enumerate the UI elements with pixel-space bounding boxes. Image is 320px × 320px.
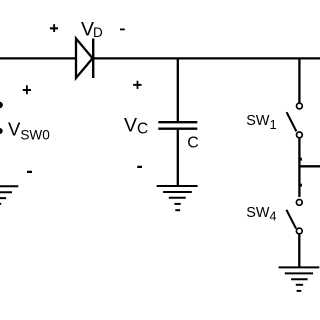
svg-text:C: C xyxy=(187,135,199,152)
label + (diode anode) xyxy=(50,24,58,32)
label + (capacitor) xyxy=(133,81,142,89)
switch SW1 xyxy=(287,103,303,138)
junction tick (upper, on SW branch) xyxy=(300,158,302,161)
wire: switch branch top lead (bus to SW1) xyxy=(298,58,300,103)
ground (VSW0, clipped at left edge) xyxy=(0,186,18,210)
wire: main bus left segment (diode anode side) xyxy=(0,57,77,59)
voltage source VSW0 terminal dot (upper, clipped at left edge) xyxy=(0,102,3,108)
ground (capacitor) xyxy=(157,186,198,210)
wire: capacitor top lead xyxy=(177,58,179,121)
label - (diode cathode) xyxy=(120,29,125,31)
junction tick (lower, on SW branch) xyxy=(300,184,302,187)
svg-text:SW1: SW1 xyxy=(246,113,276,132)
wire between SW1 and SW4 xyxy=(298,138,300,197)
wire: capacitor bottom lead xyxy=(177,130,179,186)
wire: branch to right edge xyxy=(299,165,320,167)
label - (VSW0) xyxy=(27,171,32,173)
wire: SW4 bottom lead xyxy=(298,235,300,268)
label - (capacitor) xyxy=(137,166,142,168)
voltage source VSW0 terminal dot (lower, clipped at left edge) xyxy=(0,128,3,134)
ground (SW4) xyxy=(279,267,320,291)
capacitor C plates xyxy=(158,122,197,129)
wire: main bus right segment (diode cathode to right edge) xyxy=(93,57,320,59)
switch SW4 xyxy=(286,200,302,234)
label + (VSW0) xyxy=(23,85,31,94)
diode VD xyxy=(76,39,93,79)
